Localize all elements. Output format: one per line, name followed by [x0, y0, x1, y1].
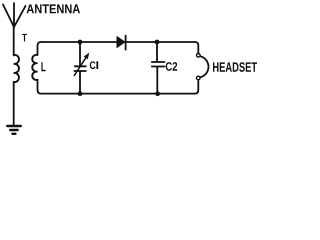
label C1 [90, 61, 98, 69]
label L [41, 62, 45, 71]
node junction dot bottom C1 [78, 91, 83, 96]
node junction dot top C2 [155, 40, 160, 45]
label HEADSET [213, 62, 257, 72]
wire C1 bottom lead [79, 72, 81, 94]
headset arc [200, 56, 208, 77]
wire bottom-right corner up to headset [195, 80, 198, 93]
wire C1 top lead [79, 42, 81, 65]
ground [7, 126, 21, 134]
antenna [3, 3, 26, 27]
wire top-right corner down to headset [195, 42, 198, 53]
label ANTENNA [27, 4, 80, 13]
C1 arrow [74, 53, 89, 75]
wire left-bottom segment and bottom rail [38, 80, 196, 94]
capacitor C1 variable (plates) [74, 66, 85, 71]
wire C2 bottom lead [156, 67, 158, 93]
diode D (crystal detector) [117, 36, 126, 50]
headset terminal circle top [197, 54, 201, 58]
label C2 [166, 62, 178, 71]
wire antenna lead down [13, 26, 15, 56]
label T [22, 34, 27, 42]
wire C2 top lead [156, 42, 158, 61]
wire coil to ground [13, 82, 15, 126]
node junction dot top C1 [78, 40, 83, 45]
wire top (main top rail) [41, 41, 195, 43]
inductor L (secondary of T) [32, 55, 37, 80]
wire top-left corner [38, 42, 42, 55]
headset terminal circle bottom [197, 76, 201, 80]
capacitor C2 (plates) [152, 62, 165, 67]
node junction dot bottom C2 [155, 91, 160, 96]
transformer primary coil (antenna coil of T) [14, 55, 19, 82]
